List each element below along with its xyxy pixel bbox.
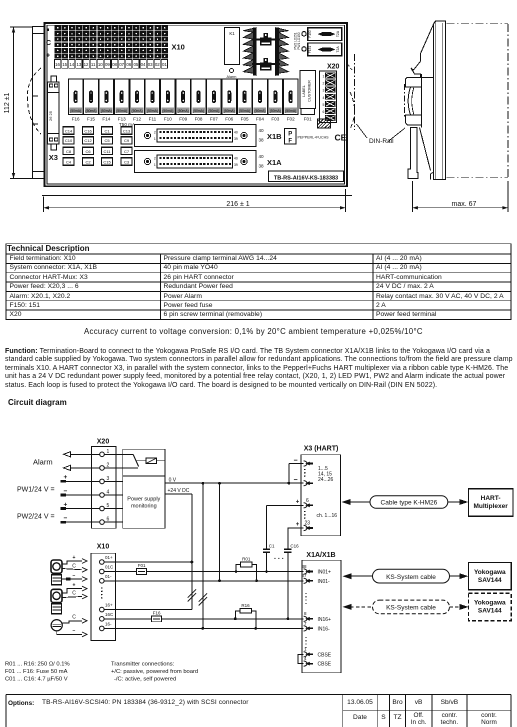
pin X3 23 plus: [296, 520, 313, 530]
wire T3 C: [62, 615, 87, 624]
fuse module F03: [268, 79, 283, 122]
wire 0V bus horizontal: [165, 482, 289, 484]
connector X1A/X1B: [302, 552, 341, 673]
heatsink left: [243, 28, 256, 76]
Pepperl+Fuchs logo: [285, 129, 330, 145]
KS-System cable callout dashed: [343, 600, 469, 614]
wire 01C left: [104, 571, 136, 573]
connector X3 HART: [301, 446, 341, 536]
fuse module F16: [68, 79, 83, 122]
side view lower plate and foot: [408, 128, 431, 179]
connector X1A board component: [135, 151, 283, 173]
component legend: [5, 661, 70, 682]
DIN rail centerline front: [354, 54, 356, 130]
resistor R01: [235, 556, 258, 582]
board lower plate line: [42, 194, 352, 196]
dimension 112 plusminus 1: [10, 27, 44, 179]
connector X10: [91, 544, 116, 641]
pin X1 37 IN01-: [301, 573, 330, 585]
wire T2 C: [62, 590, 87, 599]
fuse module F04: [253, 79, 268, 122]
pin X3 6 plus: [296, 498, 313, 508]
fuse module F08: [191, 79, 206, 122]
pin X1 7 IN16-: [304, 621, 330, 633]
wire 01C to IN01+: [147, 571, 304, 573]
wire T1 plus: [62, 555, 87, 564]
wire 0V bus vertical B: [219, 483, 221, 581]
wire T1 C: [62, 563, 87, 572]
wire X20 to power monitor: [104, 508, 122, 510]
fuse module F06: [222, 79, 237, 122]
capacitor C1: [263, 505, 275, 573]
HART-Multiplexer box: [468, 489, 513, 516]
fuse module F05: [237, 79, 252, 122]
relay coil K1: [146, 458, 165, 463]
wire +24V horizontal: [165, 493, 192, 495]
wire X20 to power monitor: [104, 521, 122, 523]
fuse module F15: [84, 79, 99, 122]
wire X3 minus bridge: [287, 464, 303, 485]
wire alarm contact 2: [64, 465, 100, 470]
label customer box: [300, 71, 315, 122]
wire 01+: [104, 561, 192, 563]
Yokogawa SAV144 box dashed: [468, 593, 511, 620]
fuse module F10: [161, 79, 176, 122]
DIN-Rail label: [357, 124, 406, 145]
power supply monitoring box: [123, 476, 165, 528]
pin X1 1 CBSE: [304, 647, 332, 659]
X20 hatch block: [318, 119, 331, 128]
heatsink right: [275, 28, 288, 76]
wire X20 to power monitor: [104, 494, 122, 496]
Yokogawa SAV144 box solid: [468, 562, 511, 589]
wire 16- to IN16-: [104, 627, 303, 629]
board front view outline: [45, 23, 348, 186]
fuse module F09: [176, 79, 191, 122]
X3 pin group labels: [317, 466, 338, 519]
capacitor grid C01..C16: [63, 127, 74, 134]
LED PW1: [302, 32, 306, 36]
wire 01- to IN01-: [104, 580, 303, 582]
wire T2 plus: [62, 582, 87, 593]
wire T3 minus: [57, 628, 87, 637]
dimension 216 plusminus 1: [44, 189, 346, 212]
resistor R16: [234, 603, 257, 630]
side view phantom envelope max 67: [446, 24, 508, 178]
wire X20 to power monitor: [104, 480, 122, 482]
terminal block X10: [55, 25, 168, 58]
accuracy note: [84, 327, 423, 336]
wire 16+: [104, 609, 192, 611]
pin X1 4 CBSE: [304, 656, 332, 668]
transmitter legend: [111, 661, 198, 682]
wire 16C left: [104, 618, 151, 620]
circuit diagram heading: [8, 398, 67, 407]
connector X20 board component: [320, 64, 340, 123]
cable K-HM26 callout: [342, 496, 469, 509]
fuse module F14: [99, 79, 114, 122]
wire alarm contact 1: [64, 452, 100, 457]
type label TB-RS-AI16V-KS-183383: [269, 171, 344, 182]
side view DIN rail profile: [405, 74, 422, 128]
function paragraph: [5, 348, 490, 355]
side view TB board tower: [431, 21, 446, 179]
heatsink tie bars: [252, 38, 280, 40]
transistor T1: [260, 33, 272, 46]
pin X3 minus group 2: [293, 477, 313, 486]
fuse module F02: [283, 79, 298, 122]
pin X3 minus group 1: [293, 457, 313, 466]
technical description table: [7, 244, 90, 253]
wire +24V bus vertical: [191, 494, 193, 610]
side view top hook: [411, 62, 434, 78]
fuse module F12: [130, 79, 145, 122]
fuse F150: [308, 28, 342, 41]
connector X1B board component: [135, 125, 283, 147]
side view slanted front edge: [420, 24, 433, 61]
wire X20.1 to relay: [104, 453, 133, 455]
relay alarm contact box: [123, 449, 165, 476]
wire X20 pin 5 feed: [61, 501, 100, 508]
wire T1 minus: [62, 573, 87, 582]
wire 16C to IN16+: [162, 618, 304, 620]
wire X3 pin6: [267, 504, 304, 506]
transistor T2: [260, 58, 272, 71]
fuse module F11: [145, 79, 160, 122]
DIN clip dashed outline front: [27, 68, 41, 134]
transmitter symbol 1 (passive): [51, 560, 62, 585]
wire 0V bus vertical A: [202, 483, 204, 628]
wire X20.2 to relay: [104, 467, 138, 469]
fuse module F13: [114, 79, 129, 122]
fuse F01: [137, 563, 147, 574]
terminal row markers: [47, 29, 49, 31]
fuse F16: [152, 611, 162, 622]
transmitter symbol 3 (active source): [51, 620, 62, 631]
pin X1 38 IN01+: [301, 564, 331, 576]
LED PW2: [302, 47, 306, 51]
fuse module F07: [207, 79, 222, 122]
fuse F151: [308, 43, 342, 56]
bus break marks: [188, 589, 207, 605]
pin X1 8 IN16+: [304, 611, 331, 623]
dimension max 67: [412, 181, 508, 212]
terminal number strip X10: [55, 60, 168, 69]
wire X20 pin 3 feed: [61, 474, 100, 481]
Alarm LED: [227, 69, 237, 80]
connector X3 board component: [48, 76, 60, 150]
transmitter symbol 2 (passive): [51, 589, 62, 613]
KS-System cable callout solid: [343, 569, 469, 583]
wire X20 pin 6 feed: [61, 515, 100, 522]
left mounting bracket side plate: [33, 27, 45, 179]
capacitor C16: [284, 528, 303, 620]
wire X20 pin 4 feed: [61, 488, 100, 495]
connector X20: [91, 439, 116, 529]
wire CBSE bridge: [298, 654, 304, 663]
relay K1: [225, 28, 240, 65]
